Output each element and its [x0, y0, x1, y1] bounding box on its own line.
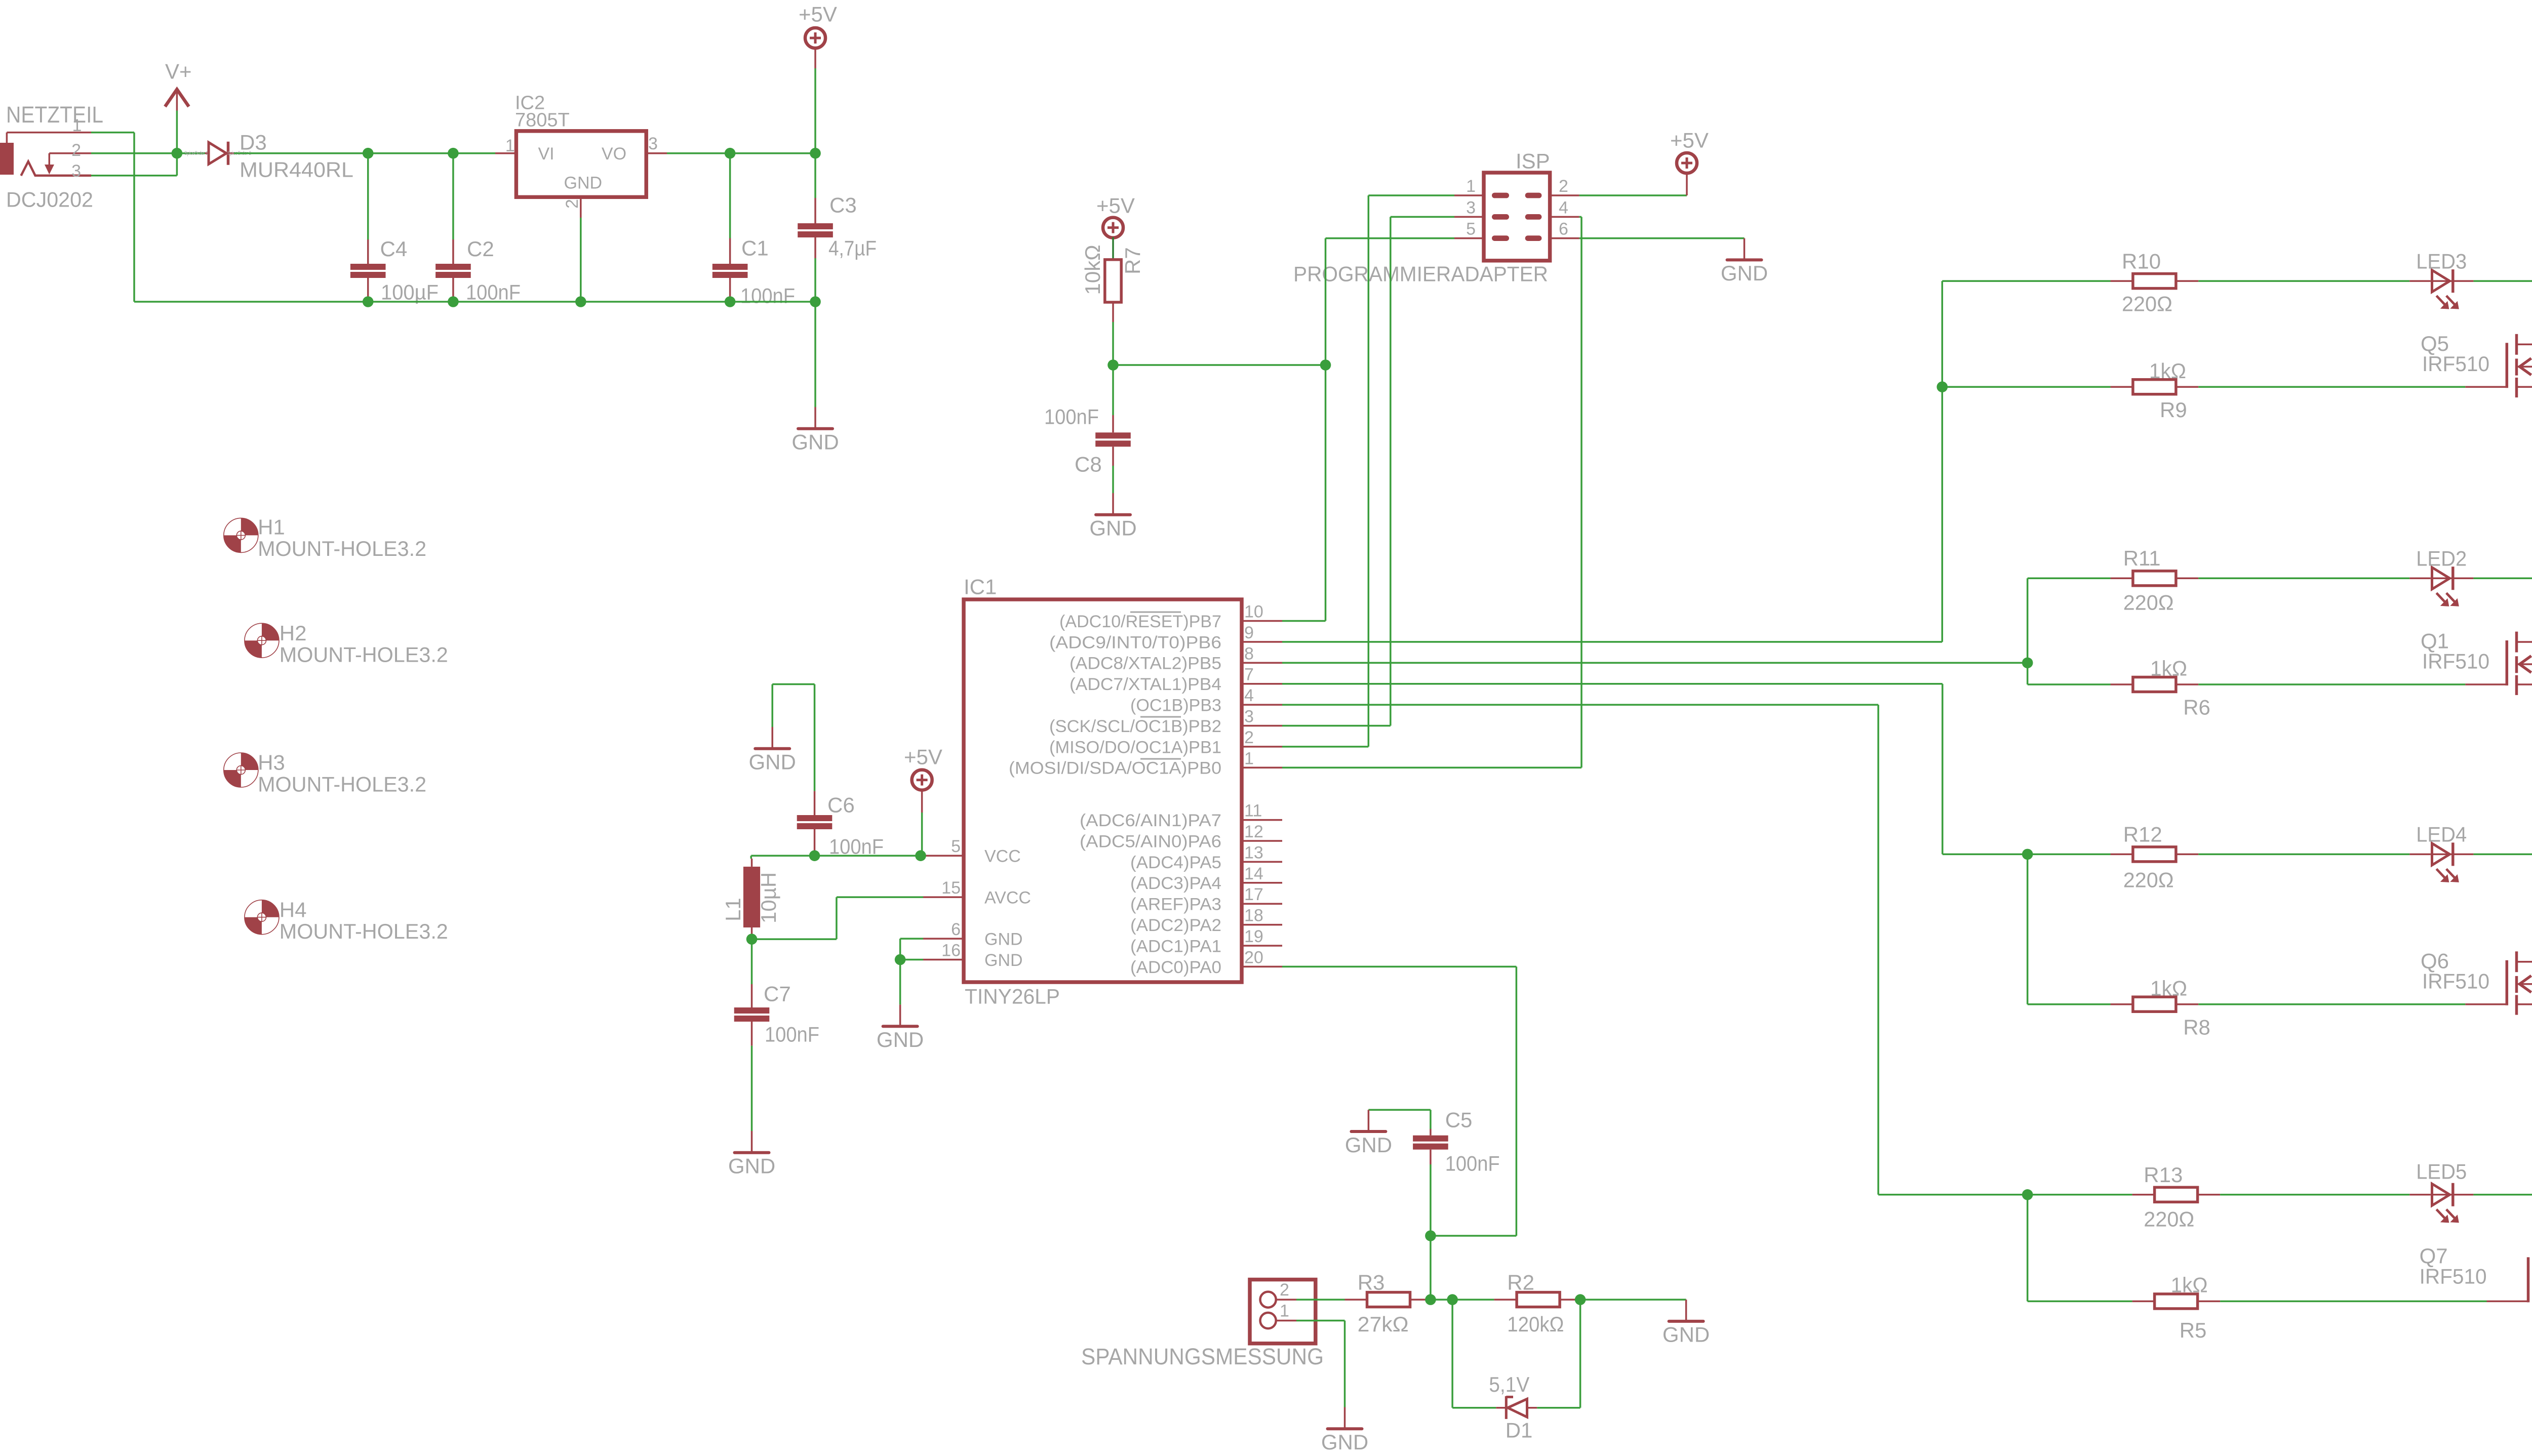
- svg-text:L1: L1: [721, 898, 745, 921]
- svg-text:IRF510: IRF510: [2422, 969, 2489, 993]
- capacitor C5: [1430, 1110, 1432, 1129]
- svg-text:(ADC1)PA1: (ADC1)PA1: [1130, 937, 1221, 956]
- ic IC2 7805T regulator box: [516, 131, 646, 197]
- wire VCC row: [751, 855, 923, 857]
- capacitor C8: [1112, 365, 1114, 415]
- svg-text:1: 1: [1466, 177, 1476, 196]
- svg-text:7: 7: [1244, 665, 1254, 684]
- svg-text:3: 3: [1466, 198, 1476, 217]
- capacitor C2: [452, 153, 454, 239]
- svg-text:R3: R3: [1358, 1270, 1385, 1294]
- ic IC1 TINY26LP box: [964, 599, 1242, 982]
- mount hole H1: [224, 518, 258, 552]
- wire D3 cathode to IC2 VI: [234, 152, 495, 154]
- net PB3 to channel4: [1282, 704, 1878, 706]
- wire meas pin1 to GND: [1296, 1320, 1345, 1322]
- svg-text:SPANNUNGSMESSUNG: SPANNUNGSMESSUNG: [1081, 1344, 1324, 1369]
- svg-text:(OC1B)PB3: (OC1B)PB3: [1130, 696, 1221, 715]
- svg-text:H3: H3: [258, 751, 285, 775]
- junction C4 bottom: [363, 296, 374, 307]
- svg-text:AVCC: AVCC: [984, 888, 1031, 908]
- wire channel4 gate row: [2028, 1301, 2132, 1303]
- svg-text:(ADC0)PA0: (ADC0)PA0: [1130, 958, 1221, 977]
- pin lead IC1 pin 12 (PA6): [1242, 840, 1282, 842]
- svg-text:7805T: 7805T: [515, 110, 570, 131]
- resistor R5 1kΩ: [2132, 1301, 2155, 1303]
- ISP pin pad row 1 right: [1525, 193, 1542, 198]
- pin lead ISP2: [1550, 194, 1579, 196]
- svg-text:SpiceOrder 1: SpiceOrder 1: [184, 150, 208, 156]
- svg-text:VO: VO: [602, 144, 626, 164]
- wire R12 to LED4: [2198, 854, 2409, 856]
- pin lead ISP6: [1550, 237, 1579, 239]
- svg-text:R9: R9: [2160, 398, 2187, 422]
- svg-text:H2: H2: [280, 621, 307, 645]
- svg-text:R13: R13: [2144, 1163, 2183, 1187]
- ground GND (ISP): [1744, 238, 1746, 259]
- wire IC1 GND pins join: [900, 938, 923, 940]
- svg-text:(SCK/SCL/OC1B)PB2: (SCK/SCL/OC1B)PB2: [1049, 717, 1221, 736]
- svg-text:+5V: +5V: [904, 745, 942, 769]
- pin lead IC1 pin 1 (PB0): [1242, 767, 1282, 769]
- svg-text:GND: GND: [749, 750, 796, 774]
- junction +5V/VCC: [915, 850, 926, 861]
- wire D1 branch down: [1451, 1300, 1453, 1408]
- wire LED3 cathode to GND: [2473, 280, 2532, 282]
- svg-text:1: 1: [1280, 1301, 1289, 1320]
- ground GND (meas): [1344, 1407, 1346, 1428]
- svg-text:GND: GND: [728, 1154, 775, 1178]
- junction L1 bottom/AVCC/C7: [746, 934, 758, 945]
- svg-text:(ADC9/INT0/T0)PB6: (ADC9/INT0/T0)PB6: [1049, 633, 1221, 652]
- svg-text:27kΩ: 27kΩ: [1358, 1312, 1409, 1336]
- svg-text:2: 2: [563, 199, 582, 209]
- svg-text:GND: GND: [564, 173, 603, 192]
- wire D1 to R2 right: [1537, 1407, 1580, 1409]
- wire V+ node to D3 anode: [177, 152, 209, 154]
- connector NETZTEIL DCJ0202 power jack: [0, 143, 14, 175]
- svg-text:+5V: +5V: [1096, 194, 1135, 218]
- ground GND (R2): [1685, 1300, 1687, 1320]
- svg-text:R10: R10: [2122, 250, 2161, 273]
- wire channel4 vertical to gate: [2027, 1195, 2029, 1302]
- junction channel3 R12 row: [2022, 849, 2033, 860]
- overline OC1A (PB0): [1140, 758, 1181, 760]
- svg-text:1: 1: [1244, 749, 1254, 768]
- supply +5V (IC1 VCC): [912, 770, 932, 790]
- wire R11 to LED2: [2198, 578, 2409, 580]
- svg-text:IRF510: IRF510: [2422, 650, 2489, 673]
- overline OC1B (PB2): [1140, 716, 1181, 718]
- pin lead IC1 pin 10 (PB7): [1242, 620, 1282, 622]
- junction C6/VCC: [809, 850, 820, 861]
- junction C2 bottom: [448, 296, 459, 307]
- wire channel3 LED row: [2028, 854, 2111, 856]
- svg-text:1kΩ: 1kΩ: [2171, 1273, 2208, 1297]
- pin lead IC1 pin 9 (PB6): [1242, 641, 1282, 643]
- svg-text:2: 2: [1559, 177, 1568, 196]
- wire NETZTEIL pin2 to V+ node: [91, 152, 177, 154]
- transistor Q7 IRF510: [2527, 1257, 2530, 1302]
- svg-text:8: 8: [1244, 644, 1254, 663]
- diode D3 MUR440RL: [209, 142, 226, 164]
- svg-text:GND: GND: [1721, 261, 1768, 285]
- pin lead IC1 pin 17 (PA3): [1242, 903, 1282, 905]
- svg-text:GND: GND: [877, 1028, 924, 1051]
- svg-text:GND: GND: [792, 430, 839, 454]
- svg-text:18: 18: [1244, 906, 1263, 925]
- svg-text:R12: R12: [2123, 823, 2162, 846]
- pin lead IC2 GND: [580, 197, 582, 218]
- svg-text:IRF510: IRF510: [2422, 352, 2489, 376]
- svg-text:NETZTEIL: NETZTEIL: [6, 102, 103, 128]
- svg-text:1kΩ: 1kΩ: [2150, 657, 2187, 680]
- led LED3: [2409, 280, 2430, 282]
- svg-text:(MOSI/DI/SDA/OC1A)PB0: (MOSI/DI/SDA/OC1A)PB0: [1009, 759, 1221, 778]
- svg-text:100nF: 100nF: [829, 835, 884, 859]
- svg-text:4: 4: [1559, 198, 1568, 217]
- transistor Q5 IRF510: [2506, 343, 2509, 388]
- svg-text:MOUNT-HOLE3.2: MOUNT-HOLE3.2: [280, 919, 448, 943]
- pin lead IC1 pin 16 (GND): [923, 959, 964, 961]
- svg-text:(ADC7/XTAL1)PB4: (ADC7/XTAL1)PB4: [1070, 675, 1221, 694]
- inductor L1 10µH: [750, 856, 752, 859]
- svg-text:100nF: 100nF: [1044, 405, 1099, 429]
- led LED2: [2409, 578, 2430, 580]
- wire C3 bottom to GND: [814, 302, 816, 407]
- supply +5V (R7 pullup): [1103, 218, 1123, 238]
- wire R10 to LED3: [2198, 280, 2409, 282]
- wire channel3 vertical to gate: [2027, 854, 2029, 1004]
- ISP pin pad row 3 right: [1525, 235, 1542, 241]
- ISP pin pad row 1 left: [1492, 193, 1509, 198]
- wire LED2 cathode to GND: [2473, 578, 2532, 580]
- wire R7 node to RESET vertical: [1113, 364, 1326, 366]
- capacitor C7: [751, 939, 753, 984]
- svg-text:12: 12: [1244, 822, 1263, 841]
- resistor R10 220Ω: [2111, 280, 2133, 282]
- junction RESET vertical: [1320, 359, 1331, 371]
- net SCK: ISP3 to IC1 PB2: [1391, 216, 1454, 218]
- svg-text:6: 6: [1559, 220, 1568, 239]
- pin lead ISP1: [1454, 194, 1484, 196]
- net PB5 to channel2: [2027, 578, 2029, 684]
- svg-text:D1: D1: [1506, 1418, 1533, 1442]
- pin lead IC1 pin 2 (PB1): [1242, 746, 1282, 748]
- svg-text:100nF: 100nF: [765, 1023, 819, 1046]
- svg-text:120kΩ: 120kΩ: [1507, 1312, 1564, 1336]
- svg-text:C2: C2: [467, 237, 494, 261]
- svg-text:H4: H4: [280, 898, 307, 921]
- wire ISP6 to GND: [1579, 237, 1745, 239]
- svg-text:C3: C3: [829, 193, 857, 217]
- pin lead IC1 pin 4 (PB3): [1242, 704, 1282, 706]
- svg-text:3: 3: [648, 134, 658, 153]
- pin lead IC1 pin 20 (PA0): [1242, 966, 1282, 968]
- resistor R13 220Ω: [2132, 1194, 2155, 1196]
- junction channel4 R13 row: [2022, 1189, 2033, 1200]
- wire GND rail C1-C3: [730, 301, 815, 303]
- resistor R7 10k (vertical): [1105, 260, 1121, 302]
- svg-text:4: 4: [1244, 686, 1254, 705]
- wire NETZTEIL pin3 up to V+ node: [91, 175, 177, 177]
- wire IC1 GND to ground: [899, 960, 901, 1005]
- ISP pin pad row 3 left: [1492, 235, 1509, 241]
- svg-text:1: 1: [72, 116, 82, 135]
- svg-text:10µH: 10µH: [757, 872, 780, 923]
- ISP pin pad row 2 right: [1525, 214, 1542, 220]
- ground GND (C8): [1112, 493, 1114, 513]
- wire channel4 LED row: [2028, 1194, 2132, 1196]
- svg-text:19: 19: [1244, 927, 1263, 946]
- pin lead IC1 pin 7 (PB4): [1242, 683, 1282, 685]
- svg-text:C4: C4: [380, 237, 408, 261]
- wire C5 top to GND: [1368, 1109, 1431, 1111]
- junction channel2 PB5: [2022, 658, 2033, 669]
- led LED4: [2409, 854, 2430, 856]
- svg-text:TINY26LP: TINY26LP: [965, 985, 1060, 1008]
- net MOSI: ISP4 to IC1 PB0: [1579, 216, 1581, 218]
- zener diode D1 5.1V: [1496, 1407, 1506, 1409]
- svg-text:ISP: ISP: [1516, 149, 1550, 173]
- pin lead ISP5: [1454, 237, 1484, 239]
- svg-text:220Ω: 220Ω: [2123, 590, 2174, 614]
- svg-text:MOUNT-HOLE3.2: MOUNT-HOLE3.2: [280, 642, 448, 666]
- transistor Q1 IRF510: [2506, 640, 2509, 685]
- svg-text:14: 14: [1244, 864, 1263, 883]
- svg-text:220Ω: 220Ω: [2122, 292, 2172, 316]
- resistor R12 220Ω: [2111, 854, 2133, 856]
- svg-text:LED3: LED3: [2416, 249, 2467, 273]
- resistor R3 27k: [1345, 1299, 1367, 1301]
- wire R2 to GND: [1582, 1299, 1686, 1301]
- svg-text:4,7µF: 4,7µF: [828, 236, 877, 260]
- resistor R11 220Ω: [2111, 578, 2133, 580]
- svg-text:100nF: 100nF: [740, 284, 795, 308]
- resistor R9 1kΩ: [2111, 386, 2133, 388]
- svg-text:C8: C8: [1075, 453, 1102, 476]
- svg-text:+5V: +5V: [1670, 129, 1709, 152]
- svg-text:R11: R11: [2123, 546, 2161, 570]
- svg-text:R2: R2: [1507, 1270, 1534, 1294]
- svg-text:(ADC6/AIN1)PA7: (ADC6/AIN1)PA7: [1080, 811, 1221, 830]
- net PA0 to divider: [1282, 966, 1516, 968]
- svg-text:1kΩ: 1kΩ: [2149, 359, 2186, 383]
- svg-text:R7: R7: [1121, 247, 1144, 274]
- pin lead IC1 pin 19 (PA1): [1242, 945, 1282, 947]
- svg-text:D3: D3: [240, 131, 267, 154]
- svg-text:IRF510: IRF510: [2420, 1265, 2487, 1288]
- wire channel1 LED row: [1942, 280, 2111, 282]
- junction channel1 gate row: [1937, 381, 1948, 392]
- wire R13 to LED5: [2220, 1194, 2409, 1196]
- supply +5V (ISP): [1677, 153, 1697, 173]
- led LED5: [2409, 1194, 2430, 1196]
- wire meas pin2 to R3: [1296, 1299, 1345, 1301]
- wire VO to C1/C3: [667, 152, 815, 154]
- junction R7/C8/RESET: [1107, 359, 1119, 371]
- svg-text:MOUNT-HOLE3.2: MOUNT-HOLE3.2: [258, 772, 426, 796]
- junction IC2 GND rail: [575, 296, 586, 307]
- svg-text:(AREF)PA3: (AREF)PA3: [1130, 895, 1221, 914]
- svg-text:20: 20: [1244, 948, 1263, 967]
- pin lead IC2 VI: [495, 152, 516, 154]
- net PB6 to channel1: [1942, 281, 1944, 642]
- pin lead IC1 pin 8 (PB5): [1242, 662, 1282, 664]
- svg-text:GND: GND: [1321, 1430, 1368, 1454]
- svg-text:LED4: LED4: [2416, 823, 2467, 846]
- svg-text:2: 2: [1244, 728, 1254, 747]
- wire R8 to Q6 gate: [2198, 1003, 2465, 1005]
- wire R3 to D1 node: [1431, 1299, 1452, 1301]
- svg-text:100µF: 100µF: [381, 280, 439, 304]
- svg-text:5: 5: [951, 837, 961, 856]
- wire channel2 LED row: [2028, 578, 2111, 580]
- svg-text:15: 15: [941, 878, 961, 898]
- pin lead IC2 VO: [646, 152, 667, 154]
- net PB4 to channel3: [1282, 683, 1943, 685]
- pin lead IC1 pin 11 (PA7): [1242, 819, 1282, 821]
- svg-text:10kΩ: 10kΩ: [1081, 245, 1104, 295]
- pin lead IC1 pin 3 (PB2): [1242, 725, 1282, 727]
- svg-text:GND: GND: [1089, 516, 1136, 540]
- svg-text:LED5: LED5: [2416, 1159, 2467, 1183]
- mount hole H4: [245, 900, 279, 935]
- junction D1 branch: [1447, 1294, 1458, 1305]
- svg-text:(ADC10/RESET)PB7: (ADC10/RESET)PB7: [1059, 612, 1221, 631]
- svg-text:3: 3: [71, 161, 81, 181]
- svg-text:(ADC8/XTAL2)PB5: (ADC8/XTAL2)PB5: [1070, 654, 1221, 673]
- svg-text:C7: C7: [764, 982, 791, 1006]
- wire LED5 cathode to GND: [2473, 1194, 2532, 1196]
- resistor R2 120k: [1494, 1299, 1516, 1301]
- svg-text:IC1: IC1: [964, 575, 997, 599]
- svg-text:PROGRAMMIERADAPTER: PROGRAMMIERADAPTER: [1293, 262, 1548, 286]
- svg-text:R8: R8: [2183, 1015, 2210, 1039]
- capacitor C6: [814, 791, 816, 815]
- svg-text:VI: VI: [538, 144, 555, 164]
- svg-text:13: 13: [1244, 843, 1263, 862]
- junction R2/D1 right: [1575, 1294, 1586, 1305]
- ground GND (C5): [1368, 1110, 1370, 1130]
- svg-text:100nF: 100nF: [1445, 1152, 1500, 1176]
- svg-text:C1: C1: [741, 236, 769, 260]
- net C6 top to GND: [814, 684, 816, 791]
- svg-text:6: 6: [951, 920, 961, 939]
- svg-text:(ADC3)PA4: (ADC3)PA4: [1130, 874, 1221, 893]
- transistor Q6 IRF510: [2506, 960, 2509, 1005]
- junction IC1 GND pins: [895, 954, 906, 965]
- wire R5 to Q7 gate: [2220, 1301, 2486, 1303]
- wire NETZTEIL pin1 to GND rail: [91, 132, 134, 134]
- junction C5/R3: [1425, 1294, 1436, 1305]
- svg-text:10: 10: [1244, 602, 1263, 622]
- svg-text:GND: GND: [984, 930, 1023, 949]
- svg-text:H1: H1: [258, 515, 285, 539]
- svg-text:LED2: LED2: [2416, 547, 2467, 571]
- connector SPANNUNGSMESSUNG box: [1250, 1280, 1316, 1344]
- mount hole H2: [245, 623, 279, 658]
- wire LED4 cathode to GND: [2473, 854, 2532, 856]
- svg-text:(ADC2)PA2: (ADC2)PA2: [1130, 916, 1221, 935]
- wire channel2 gate row: [2028, 683, 2111, 685]
- svg-text:17: 17: [1244, 885, 1263, 904]
- wire R9 to Q5 gate: [2198, 386, 2465, 388]
- junction C3 top: [810, 148, 821, 159]
- svg-text:2: 2: [71, 141, 81, 160]
- wire GND rail IC2-C1: [581, 301, 730, 303]
- svg-text:(MISO/DO/OC1A)PB1: (MISO/DO/OC1A)PB1: [1049, 738, 1221, 757]
- net MISO: ISP1 to IC1 PB1: [1368, 194, 1454, 196]
- capacitor C4: [367, 153, 369, 239]
- junction C1 bottom: [725, 296, 736, 307]
- wire channel1 gate row: [1942, 386, 2111, 388]
- ground GND (C6): [771, 727, 773, 747]
- junction C4 top: [363, 148, 374, 159]
- mount hole H3: [224, 753, 258, 787]
- svg-text:MOUNT-HOLE3.2: MOUNT-HOLE3.2: [258, 537, 426, 560]
- ground GND (C7): [751, 1131, 753, 1151]
- svg-text:DCJ0202: DCJ0202: [6, 188, 93, 212]
- wire R6 to Q1 gate: [2198, 683, 2465, 685]
- svg-text:C6: C6: [827, 793, 855, 817]
- capacitor C3 4.7uF: [814, 153, 816, 198]
- connector ISP box: [1484, 173, 1550, 261]
- pin lead IC1 pin 13 (PA5): [1242, 861, 1282, 863]
- supply +5V (regulator output): [805, 28, 825, 48]
- pin lead IC1 pin 6 (GND): [923, 938, 964, 940]
- wire ISP2 to +5V: [1579, 194, 1687, 196]
- pin lead IC1 pin 5 (VCC): [923, 855, 964, 857]
- svg-text:1kΩ: 1kΩ: [2150, 976, 2187, 1000]
- junction PA0/C5: [1425, 1230, 1436, 1241]
- svg-text:GND: GND: [1345, 1133, 1392, 1157]
- junction C3 bottom: [810, 296, 821, 307]
- capacitor C1: [729, 153, 731, 238]
- svg-text:+5V: +5V: [799, 3, 837, 26]
- svg-text:V+: V+: [165, 60, 192, 84]
- pin lead ISP4: [1550, 216, 1579, 218]
- pin lead IC1 pin 14 (PA4): [1242, 882, 1282, 884]
- svg-text:VCC: VCC: [984, 847, 1021, 866]
- svg-text:3: 3: [1244, 707, 1254, 726]
- supply symbol V+ (input): [165, 90, 189, 107]
- pin lead IC1 pin 18 (PA2): [1242, 924, 1282, 926]
- svg-text:GND: GND: [1663, 1323, 1710, 1347]
- wire GND rail C2-IC2: [453, 301, 581, 303]
- svg-text:C5: C5: [1445, 1108, 1473, 1132]
- resistor R8 1kΩ: [2111, 1003, 2133, 1005]
- wire GND rail C4-C2: [368, 301, 453, 303]
- ground GND (power section): [814, 407, 816, 427]
- svg-text:(ADC5/AIN0)PA6: (ADC5/AIN0)PA6: [1080, 832, 1221, 851]
- svg-text:R5: R5: [2180, 1318, 2207, 1342]
- wire L1 node to AVCC: [752, 938, 837, 940]
- wire to R2: [1452, 1299, 1494, 1301]
- net RESET: ISP5 to IC1 PB7: [1326, 237, 1455, 239]
- svg-text:220Ω: 220Ω: [2144, 1207, 2194, 1231]
- junction V+ node: [172, 148, 183, 159]
- svg-text:MUR440RL: MUR440RL: [240, 158, 353, 182]
- junction C1 top: [725, 148, 736, 159]
- svg-text:16: 16: [941, 941, 961, 960]
- overline RESET (PB7): [1130, 612, 1181, 613]
- pin lead IC1 pin 15 (AVCC): [923, 896, 964, 898]
- svg-text:R6: R6: [2183, 696, 2210, 719]
- svg-text:11: 11: [1244, 801, 1262, 821]
- svg-text:GND: GND: [984, 951, 1023, 970]
- svg-text:2: 2: [1280, 1280, 1289, 1300]
